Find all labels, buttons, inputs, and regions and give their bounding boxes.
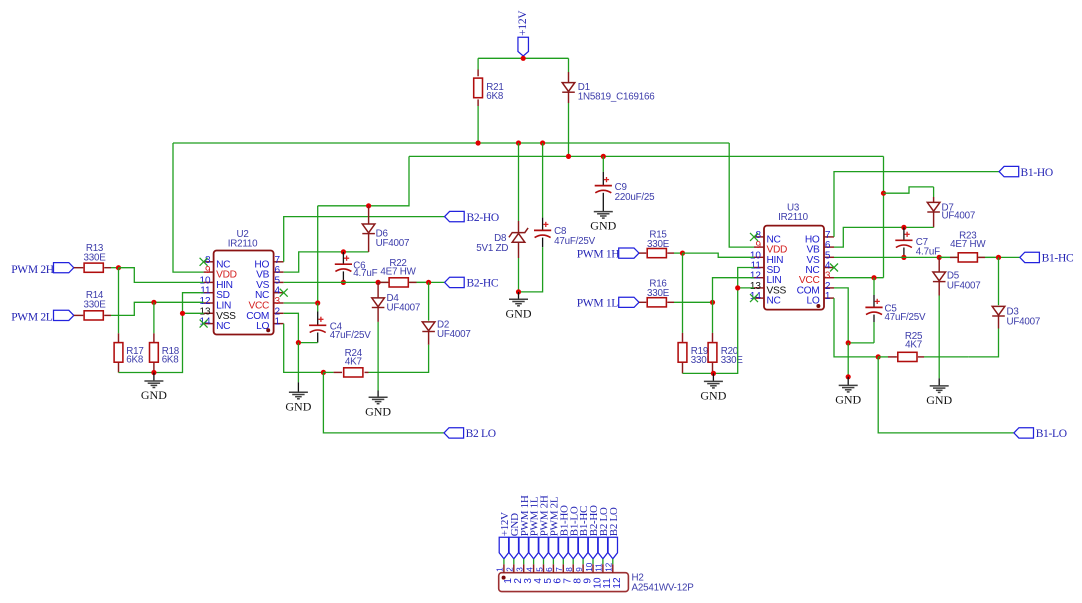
net flag H2 pin 4 PWM 1L bbox=[529, 496, 541, 559]
wire VCC rail bbox=[409, 155, 884, 157]
net flag H2 pin 7 B1-HO bbox=[558, 505, 570, 559]
resistor R17 bbox=[114, 343, 123, 363]
label R24 4K7 bbox=[345, 348, 363, 368]
no-connect X U3 pin 8 bbox=[750, 233, 758, 241]
ground GND (D5) bbox=[926, 386, 952, 407]
pin H2 3 bbox=[516, 564, 535, 583]
svg-text:UF4007: UF4007 bbox=[942, 210, 976, 221]
wire COM U2 bbox=[284, 313, 299, 342]
diode D4 bbox=[372, 298, 385, 308]
net flag PWM 2L bbox=[54, 310, 74, 320]
wire SD U3 bbox=[713, 268, 754, 374]
svg-text:12: 12 bbox=[612, 577, 623, 589]
pin H2 11 bbox=[595, 563, 614, 589]
wire LO U2 bbox=[284, 324, 324, 373]
wire D4 to ground bbox=[377, 308, 379, 398]
label D1 1N5819_C169166 bbox=[578, 82, 655, 103]
pin H2 10 bbox=[585, 562, 604, 588]
wire H2 pin 2 bbox=[513, 559, 515, 565]
svg-text:PWM 2L: PWM 2L bbox=[11, 312, 53, 324]
svg-text:6: 6 bbox=[545, 567, 554, 572]
net flag PWM 1L bbox=[619, 297, 639, 307]
gnd lead R20 bbox=[712, 373, 714, 381]
pin H2 5 bbox=[535, 564, 554, 583]
svg-text:B2 LO: B2 LO bbox=[608, 507, 620, 536]
label D5 UF4007 bbox=[947, 271, 981, 292]
resistor R18 bbox=[150, 343, 159, 363]
label C7 4.7uF bbox=[916, 237, 940, 258]
junction PWM2H bbox=[116, 265, 121, 270]
net flag H2 pin 5 PWM 2H bbox=[539, 495, 551, 559]
wire SD U2 bbox=[154, 293, 204, 373]
label R25 4K7 bbox=[905, 331, 923, 351]
wire C7 top lead bbox=[903, 227, 905, 240]
svg-text:47uF/25V: 47uF/25V bbox=[330, 330, 372, 341]
wire C8 top bbox=[542, 143, 544, 230]
svg-text:GND: GND bbox=[141, 388, 167, 402]
label D7 UF4007 bbox=[942, 202, 976, 221]
junction +12V bbox=[521, 56, 526, 61]
svg-text:1N5819_C169166: 1N5819_C169166 bbox=[578, 91, 655, 102]
wire VCC drop U2 bbox=[318, 156, 409, 303]
svg-text:5V1 ZD: 5V1 ZD bbox=[476, 243, 508, 254]
wire H2 pin 5 bbox=[543, 559, 545, 565]
capacitor C9 bbox=[595, 177, 612, 193]
wire D3 bottom bbox=[968, 316, 998, 357]
junction LO/R25 bbox=[876, 354, 881, 359]
wire R21 top bbox=[477, 58, 479, 76]
pin H2 1 bbox=[496, 564, 515, 583]
junction PWM1L bbox=[710, 300, 715, 305]
svg-text:PWM 2H: PWM 2H bbox=[11, 264, 54, 276]
label R17 6K8 bbox=[126, 346, 144, 366]
wire R18 top bbox=[153, 302, 155, 342]
no-connect X U2 pin 4 bbox=[280, 289, 288, 297]
label D3 UF4007 bbox=[1007, 306, 1041, 327]
wire VDD U2 bbox=[173, 143, 204, 272]
capacitor C7 bbox=[895, 232, 912, 248]
junction VCC-C9 bbox=[601, 154, 606, 159]
wire VCC pin U2 bbox=[284, 302, 318, 304]
wire D7 bottom lead bbox=[933, 212, 935, 227]
svg-text:B1-HO: B1-HO bbox=[1021, 167, 1053, 179]
svg-text:B2-HC: B2-HC bbox=[467, 278, 499, 290]
wire D5 to ground bbox=[938, 282, 940, 386]
svg-text:330E: 330E bbox=[647, 288, 670, 299]
junction PWM1H bbox=[680, 251, 685, 256]
net label B2 LO bbox=[466, 428, 496, 440]
wire R24 left lead bbox=[323, 371, 342, 373]
svg-text:3: 3 bbox=[516, 567, 525, 572]
wire D7 top lead bbox=[933, 197, 935, 202]
svg-text:1: 1 bbox=[496, 567, 505, 572]
ground GND (C9) bbox=[590, 212, 616, 233]
label D2 UF4007 bbox=[437, 319, 471, 340]
junction VCC/C5 bbox=[871, 275, 876, 280]
net flag H2 pin 6 PWM 2L bbox=[549, 496, 561, 559]
net label B2-HO bbox=[467, 212, 499, 224]
wire LIN U2 bbox=[104, 302, 203, 315]
label R21 6K8 bbox=[486, 82, 504, 102]
svg-text:UF4007: UF4007 bbox=[1007, 316, 1041, 327]
svg-text:GND: GND bbox=[700, 389, 726, 403]
resistor R15 bbox=[647, 249, 666, 258]
wire D3 top bbox=[998, 257, 1000, 305]
svg-text:PWM 1H: PWM 1H bbox=[577, 249, 620, 261]
svg-text:GND: GND bbox=[926, 393, 952, 407]
svg-text:GND: GND bbox=[835, 393, 861, 407]
svg-text:NC: NC bbox=[216, 321, 230, 332]
op-amp driver U3 IR2110 bbox=[750, 226, 834, 310]
svg-text:GND: GND bbox=[365, 404, 391, 418]
wire R24 right lead bbox=[365, 371, 369, 373]
net flag H2 pin 12 B2 LO bbox=[608, 507, 620, 559]
svg-text:B2-HO: B2-HO bbox=[467, 212, 499, 224]
wire R20 bottom bbox=[712, 363, 714, 374]
net flag B1-LO bbox=[1014, 428, 1034, 438]
net flag H2 pin 2 GND bbox=[509, 513, 521, 559]
label H2 A2541WV-12P bbox=[632, 582, 695, 593]
svg-text:UF4007: UF4007 bbox=[437, 329, 471, 340]
svg-text:B2 LO: B2 LO bbox=[466, 428, 496, 440]
net flag B2 LO bbox=[444, 428, 464, 438]
svg-text:47uF/25V: 47uF/25V bbox=[885, 312, 927, 323]
wire HO U3 to B1-HO bbox=[834, 172, 999, 237]
label U3 bbox=[787, 202, 800, 213]
net flag B1-HO bbox=[999, 166, 1019, 176]
wire C6 top lead bbox=[342, 252, 344, 264]
pin H2 9 bbox=[575, 564, 594, 583]
gnd lead R18 bbox=[153, 373, 155, 382]
wire H2 pin 9 bbox=[582, 559, 584, 565]
svg-text:8: 8 bbox=[565, 567, 574, 572]
svg-text:220uF/25: 220uF/25 bbox=[615, 192, 656, 203]
label D8 5V1 ZD bbox=[476, 233, 508, 254]
junction COM/C4 bbox=[296, 340, 301, 345]
wire VDD U3 bbox=[729, 143, 754, 247]
svg-text:5: 5 bbox=[535, 567, 544, 572]
pin H2 7 bbox=[555, 564, 574, 583]
resistor R25 bbox=[898, 352, 917, 361]
wire C5 top lead bbox=[873, 278, 875, 308]
svg-text:GND: GND bbox=[590, 219, 616, 233]
svg-text:UF4007: UF4007 bbox=[376, 238, 410, 249]
junction LO/R24 bbox=[321, 370, 326, 375]
wire H2 pin 3 bbox=[523, 559, 525, 565]
wire D8 top bbox=[518, 143, 520, 232]
net label PWM 1L bbox=[577, 298, 619, 310]
wire D6 top lead bbox=[368, 206, 370, 224]
svg-text:B1-HC: B1-HC bbox=[1042, 253, 1074, 265]
wire R21 bottom bbox=[477, 99, 479, 143]
svg-text:GND: GND bbox=[506, 306, 532, 320]
resistor R20 bbox=[708, 343, 717, 363]
label C6 4.7uF bbox=[353, 260, 377, 279]
wire C9 bottom bbox=[602, 193, 604, 212]
svg-text:11: 11 bbox=[595, 563, 604, 572]
net flag B1-HC bbox=[1020, 252, 1040, 262]
junction GND row U3 bbox=[711, 371, 716, 376]
net flag H2 pin 10 B2-HO bbox=[588, 505, 600, 559]
wire LIN U3 bbox=[713, 278, 755, 303]
svg-text:330E: 330E bbox=[647, 239, 670, 250]
wire C5 bottom lead bbox=[873, 315, 875, 343]
diode D5 bbox=[933, 272, 946, 282]
wire H2 pin 4 bbox=[533, 559, 535, 565]
wire H2 pin 12 bbox=[612, 559, 614, 565]
wire PWM1L-R16 bbox=[639, 301, 646, 303]
wire R23 right lead bbox=[978, 256, 998, 258]
power flag +12V bbox=[517, 10, 529, 56]
wire R17 bottom bbox=[119, 363, 154, 373]
wire B1-LO run bbox=[878, 357, 1014, 433]
diode D3 bbox=[992, 306, 1005, 316]
wire R25 left lead bbox=[878, 356, 897, 358]
junction D4/R22 left bbox=[376, 280, 381, 285]
net flag H2 pin 1 +12V bbox=[499, 512, 511, 559]
pin H2 12 bbox=[605, 562, 624, 588]
junction R22/D2 bbox=[426, 280, 431, 285]
gnd lead U3 COM bbox=[847, 377, 849, 386]
label R22 4E7 HW bbox=[380, 258, 416, 278]
wire COM U3 to ground bbox=[847, 343, 849, 377]
capacitor C5 bbox=[865, 299, 882, 315]
label U2 IR2110 bbox=[228, 239, 258, 250]
wire R22 left lead bbox=[378, 281, 388, 283]
svg-text:47uF/25V: 47uF/25V bbox=[554, 236, 596, 247]
ground GND (U2 COM) bbox=[285, 392, 311, 413]
wire C4 top lead bbox=[317, 303, 319, 325]
svg-text:UF4007: UF4007 bbox=[387, 303, 421, 314]
wire R19 bottom bbox=[683, 363, 714, 374]
op-amp driver U2 IR2110 bbox=[199, 251, 283, 335]
label H2 bbox=[632, 573, 644, 584]
wire R16-junction bbox=[667, 301, 712, 303]
label C5 47uF/25V bbox=[885, 303, 927, 323]
svg-text:4K7: 4K7 bbox=[345, 357, 362, 368]
wire PWM2H-R13 bbox=[74, 267, 84, 269]
wire D5 top lead bbox=[938, 257, 940, 272]
zener diode D8 bbox=[509, 228, 528, 242]
svg-text:GND: GND bbox=[285, 399, 311, 413]
svg-text:UF4007: UF4007 bbox=[947, 281, 981, 292]
diode D6 bbox=[362, 224, 375, 234]
wire R18 bottom bbox=[153, 363, 155, 373]
wire PWM2L-R14 bbox=[74, 314, 84, 316]
wire R15-junction bbox=[667, 252, 682, 254]
svg-text:2: 2 bbox=[506, 567, 515, 572]
no-connect X U2 pin 8 bbox=[200, 258, 208, 266]
wire C7 bottom lead bbox=[903, 248, 905, 258]
resistor R21 bbox=[474, 78, 483, 98]
svg-text:12: 12 bbox=[605, 562, 614, 572]
svg-text:10: 10 bbox=[585, 562, 594, 572]
wire VS row U3 bbox=[834, 256, 1020, 258]
ground GND (R17/R18) bbox=[141, 381, 167, 402]
svg-text:B1-LO: B1-LO bbox=[1036, 428, 1067, 440]
net label PWM 2H bbox=[11, 264, 54, 276]
label C9 220uF/25 bbox=[615, 182, 656, 203]
resistor R16 bbox=[647, 298, 666, 307]
wire PWM1H-R15 bbox=[639, 252, 646, 254]
net flag B2-HO bbox=[445, 211, 465, 221]
label R18 6K8 bbox=[162, 346, 180, 366]
wire COM to ground bbox=[297, 343, 299, 393]
junction COM/C5 bbox=[846, 340, 851, 345]
wire R17 top bbox=[118, 268, 120, 343]
label U2 bbox=[237, 229, 249, 240]
svg-text:4K7: 4K7 bbox=[905, 340, 922, 351]
ground GND (D8/C8) bbox=[506, 299, 532, 320]
label R14 330E bbox=[83, 290, 106, 310]
svg-text:9: 9 bbox=[575, 567, 584, 572]
capacitor C4 bbox=[309, 317, 326, 333]
capacitor C8 bbox=[534, 222, 551, 238]
svg-text:4E7 HW: 4E7 HW bbox=[950, 239, 986, 250]
resistor R23 bbox=[958, 253, 977, 262]
svg-text:4.7uF: 4.7uF bbox=[916, 246, 940, 257]
wire HIN U3 bbox=[683, 253, 755, 257]
wire H2 pin 1 bbox=[503, 559, 505, 565]
junction VSS U3 bbox=[735, 285, 740, 290]
junction VDD-C8 bbox=[540, 140, 545, 145]
svg-text:6K8: 6K8 bbox=[126, 354, 144, 365]
label C4 47uF/25V bbox=[330, 321, 372, 341]
diode D7 bbox=[927, 202, 940, 212]
svg-text:PWM 1L: PWM 1L bbox=[577, 298, 619, 310]
svg-text:A2541WV-12P: A2541WV-12P bbox=[632, 582, 695, 593]
junction VCC-D1 bbox=[566, 154, 571, 159]
wire VSS U3 bbox=[738, 287, 754, 289]
wire VSS U2 bbox=[183, 312, 204, 314]
wire C4 bottom lead bbox=[298, 333, 317, 343]
net label B1-HO bbox=[1021, 167, 1053, 179]
diode D1 bbox=[562, 83, 575, 93]
svg-text:1: 1 bbox=[825, 291, 831, 302]
svg-text:4: 4 bbox=[525, 567, 534, 572]
wire D8 bottom bbox=[518, 242, 520, 292]
connector H2 body bbox=[499, 573, 629, 592]
junction VDD-R21 bbox=[476, 140, 481, 145]
label D4 UF4007 bbox=[387, 293, 421, 314]
net label PWM 2L bbox=[11, 312, 53, 324]
wire VS row U2 bbox=[284, 281, 445, 283]
wire B2 LO run bbox=[323, 372, 444, 433]
junction D8/C8 ground bbox=[516, 289, 521, 294]
wire D4 top lead bbox=[377, 282, 379, 298]
junction VDD-D8 bbox=[516, 140, 521, 145]
svg-text:NC: NC bbox=[767, 296, 781, 307]
junction VCC U2 bbox=[315, 300, 320, 305]
net label B2-HC bbox=[467, 278, 499, 290]
wire D2 bottom bbox=[369, 332, 429, 373]
wire R25 right lead bbox=[918, 356, 968, 358]
net label B1-HC bbox=[1042, 253, 1074, 265]
resistor R19 bbox=[678, 343, 687, 363]
label U3 IR2110 bbox=[778, 212, 808, 223]
label R20 330E bbox=[721, 346, 744, 366]
svg-text:4E7 HW: 4E7 HW bbox=[380, 267, 416, 278]
diode D2 bbox=[422, 322, 435, 332]
junction C6 bottom bbox=[341, 280, 346, 285]
net flag H2 pin 3 PWM 1H bbox=[519, 495, 531, 559]
wire H2 pin 10 bbox=[592, 559, 594, 565]
wire VDD rail bbox=[173, 142, 729, 144]
wire R22 right lead bbox=[409, 281, 428, 283]
svg-text:IR2110: IR2110 bbox=[228, 239, 258, 250]
wire D1 bottom bbox=[568, 92, 570, 156]
wire D1 top bbox=[568, 58, 570, 82]
no-connect X U2 pin 14 bbox=[200, 320, 208, 328]
wire C8 bottom bbox=[519, 238, 543, 292]
junction D5/R23 left bbox=[937, 255, 942, 260]
wire R20 top bbox=[712, 302, 714, 342]
net flag H2 pin 8 B1-LO bbox=[568, 506, 580, 559]
label R23 4E7 HW bbox=[950, 230, 986, 250]
wire HO U2 to B2-HO bbox=[284, 217, 445, 262]
wire VCC drop U3 bbox=[883, 156, 885, 277]
junction R23/D3 bbox=[996, 255, 1001, 260]
svg-text:6K8: 6K8 bbox=[162, 354, 180, 365]
pin-1 mark H2 bbox=[502, 576, 506, 580]
pin H2 6 bbox=[545, 564, 564, 583]
wire H2 pin 8 bbox=[572, 559, 574, 565]
pin H2 8 bbox=[565, 564, 584, 583]
no-connect X U3 pin 4 bbox=[830, 264, 838, 272]
svg-text:+12V: +12V bbox=[517, 10, 529, 36]
wire H2 pin 7 bbox=[562, 559, 564, 565]
wire C9 top bbox=[602, 156, 604, 185]
junction GND row U2 bbox=[151, 370, 156, 375]
svg-text:7: 7 bbox=[555, 567, 564, 572]
svg-text:IR2110: IR2110 bbox=[778, 212, 808, 223]
wire D6 bottom lead bbox=[368, 234, 370, 252]
wire COM U3 bbox=[834, 288, 874, 343]
capacitor C6 bbox=[335, 256, 352, 272]
label C8 47uF/25V bbox=[554, 226, 596, 247]
label R13 330E bbox=[83, 243, 106, 263]
resistor R24 bbox=[344, 368, 363, 377]
svg-text:330E: 330E bbox=[83, 252, 106, 263]
junction VSS U2 bbox=[180, 311, 185, 316]
wire LO U3 bbox=[834, 298, 878, 357]
wire H2 pin 11 bbox=[602, 559, 604, 565]
net flag H2 pin 11 B2 LO bbox=[598, 507, 610, 559]
junction C7 top bbox=[901, 225, 906, 230]
pin H2 4 bbox=[525, 564, 544, 583]
gnd lead D8 bbox=[518, 292, 520, 299]
svg-text:330E: 330E bbox=[721, 355, 744, 366]
net label B1-LO bbox=[1036, 428, 1067, 440]
junction D7 branch bbox=[881, 191, 886, 196]
junction gnd U3 COM bbox=[846, 374, 851, 379]
label D6 UF4007 bbox=[376, 228, 410, 249]
resistor R22 bbox=[389, 278, 408, 287]
wire VB U3 branch bbox=[834, 227, 934, 247]
net flag PWM 1H bbox=[619, 248, 639, 258]
junction D6 top bbox=[366, 203, 371, 208]
wire R13-junction bbox=[104, 267, 118, 269]
wire +12V rail bbox=[478, 56, 568, 58]
junction LIN-R18 bbox=[151, 300, 156, 305]
wire VCC pin U3 bbox=[834, 277, 884, 279]
svg-text:6K8: 6K8 bbox=[486, 91, 504, 102]
wire C6 bottom lead bbox=[342, 271, 344, 282]
label R16 330E bbox=[647, 279, 670, 299]
no-connect X U3 pin 14 bbox=[750, 294, 758, 302]
wire VB U2 branch bbox=[284, 252, 369, 272]
net label PWM 1H bbox=[577, 249, 620, 261]
